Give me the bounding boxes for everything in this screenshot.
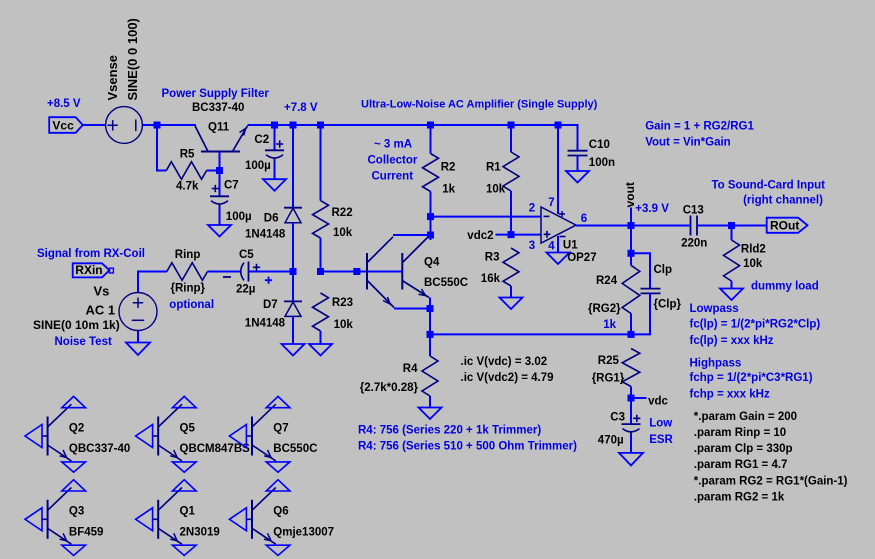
junction vout node: [628, 222, 635, 229]
svg-text:Current: Current: [372, 171, 414, 183]
junction feedback node right: [628, 331, 635, 338]
svg-text:.param RG2 = 1k: .param RG2 = 1k: [694, 491, 785, 503]
svg-text:1N4148: 1N4148: [245, 228, 286, 240]
svg-text:~ 3 mA: ~ 3 mA: [374, 139, 412, 151]
junction rail R22: [317, 122, 324, 129]
svg-text:OP27: OP27: [567, 252, 596, 264]
svg-text:{RG2}: {RG2}: [588, 303, 621, 315]
wire Vs up and right to Rinp: [138, 272, 167, 293]
wire C13 to ROut: [698, 225, 767, 227]
svg-text:C2: C2: [254, 134, 269, 146]
wire pin2 inverting input: [431, 216, 542, 218]
svg-text:{Rinp}: {Rinp}: [171, 283, 206, 295]
svg-text:R24: R24: [596, 275, 618, 287]
svg-text:C7: C7: [224, 179, 239, 191]
svg-text:dummy load: dummy load: [751, 280, 819, 292]
svg-text:Power Supply Filter: Power Supply Filter: [162, 88, 270, 100]
resistor R5: [166, 162, 206, 180]
svg-text:10k: 10k: [334, 319, 354, 331]
wire vout label stub: [630, 208, 632, 226]
svg-text:3: 3: [529, 240, 535, 252]
svg-text:6: 6: [581, 213, 587, 225]
svg-text:10k: 10k: [333, 227, 353, 239]
ground C3: [619, 453, 643, 466]
wire C3 to ground: [630, 435, 632, 453]
svg-text:RXin: RXin: [75, 263, 102, 277]
svg-text:Collector: Collector: [368, 155, 418, 167]
wire input node to D7: [292, 272, 294, 302]
flag emitter Q1: [172, 545, 196, 555]
wire rail to C2: [274, 125, 276, 150]
svg-text:4: 4: [548, 241, 555, 253]
svg-text:Q2: Q2: [69, 422, 84, 434]
svg-text:SINE(0 10m 1k): SINE(0 10m 1k): [33, 318, 120, 332]
ground R3: [500, 298, 523, 310]
wire collector node vertical: [430, 217, 432, 240]
transistor Q5 (spare): [153, 404, 182, 461]
wire R1 to vdc2 node: [510, 191, 512, 235]
svg-text:Q4: Q4: [424, 257, 440, 269]
port flag RXin: [73, 263, 114, 277]
flag base Q7: [229, 425, 246, 448]
svg-text:22µ: 22µ: [236, 283, 255, 295]
flag collector Q6: [266, 480, 290, 491]
capacitor Clp: [641, 289, 661, 294]
wire rail to R1: [510, 125, 512, 152]
svg-text:U1: U1: [563, 239, 578, 251]
junction emitter node: [427, 305, 434, 312]
wire vout down to R24: [630, 226, 632, 266]
ground Rld2: [720, 289, 743, 301]
wire vdc2 to pin3: [496, 234, 542, 236]
svg-text:QBCM847BS: QBCM847BS: [180, 443, 251, 455]
svg-text:Vsense: Vsense: [105, 55, 120, 101]
svg-text:{2.7k*0.28}: {2.7k*0.28}: [360, 382, 419, 394]
capacitor C13: [691, 216, 698, 236]
flag base Q5: [136, 425, 153, 448]
flag collector Q5: [172, 396, 196, 407]
wire vdc to C3: [630, 398, 632, 424]
wire R24 to feedback node: [630, 314, 632, 335]
wire Q4 left emitter: [394, 308, 430, 310]
junction rail R2: [427, 122, 434, 129]
svg-text:R23: R23: [332, 297, 353, 309]
svg-text:R4: 756 (Series 220 + 1k Trimm: R4: 756 (Series 220 + 1k Trimmer): [358, 424, 541, 436]
svg-text:{Clp}: {Clp}: [654, 298, 682, 310]
port flag ROut: [767, 218, 808, 233]
svg-text:Q11: Q11: [208, 121, 230, 133]
op-amp U1: [541, 207, 576, 243]
junction collector node: [427, 232, 434, 239]
svg-text:1k: 1k: [603, 319, 616, 331]
svg-text:+8.5 V: +8.5 V: [47, 98, 81, 110]
svg-text:(right channel): (right channel): [743, 194, 823, 206]
wire pin4 V- to ground: [557, 236, 559, 253]
svg-text:To Sound-Card Input: To Sound-Card Input: [712, 179, 826, 191]
junction node A: [154, 122, 161, 129]
svg-text:Q7: Q7: [273, 422, 288, 434]
svg-text:SINE(0 0 100): SINE(0 0 100): [125, 18, 140, 100]
resistor R25: [622, 349, 640, 387]
transistor Q7 (spare): [246, 404, 275, 461]
junction rail R1: [508, 122, 515, 129]
flag emitter Q7: [266, 462, 290, 472]
ground Vs: [126, 343, 150, 356]
wire Vsense to node A: [142, 124, 196, 126]
resistor R1: [503, 152, 519, 191]
flag base Q2: [25, 425, 42, 448]
junction rail pin7: [555, 122, 562, 129]
junction Rld2 node: [728, 222, 735, 229]
svg-text:fchp = xxx kHz: fchp = xxx kHz: [690, 389, 770, 401]
ground C10: [566, 171, 589, 183]
svg-text:ROut: ROut: [770, 218, 799, 232]
wire R25 to vdc node: [630, 387, 632, 399]
wire rail to D6: [292, 125, 294, 208]
transistor Q4 right: [402, 237, 429, 298]
junction rail C2: [271, 122, 278, 129]
resistor R4: [422, 356, 438, 396]
voltage source Vs: [119, 293, 157, 331]
svg-text:optional: optional: [169, 299, 214, 311]
capacitor C7: [210, 185, 229, 207]
svg-text:+3.9 V: +3.9 V: [635, 203, 669, 215]
ground D7: [282, 344, 305, 356]
wire Vcc to Vsense: [83, 124, 106, 126]
wire C10 to ground: [577, 156, 579, 172]
transistor Q1 (spare): [153, 488, 182, 545]
wire Rinp to C5: [208, 271, 241, 273]
wire rail to R22: [320, 125, 322, 201]
svg-text:R5: R5: [180, 149, 195, 161]
svg-text:Gain = 1 + RG2/RG1: Gain = 1 + RG2/RG1: [645, 121, 754, 133]
svg-text:.param RG1 = 4.7: .param RG1 = 4.7: [694, 459, 788, 471]
svg-text:Q3: Q3: [69, 506, 84, 518]
svg-text:Qmje13007: Qmje13007: [273, 527, 334, 539]
junction input node D7: [290, 268, 297, 275]
junction Clp top: [628, 250, 635, 257]
flag emitter Q3: [62, 545, 86, 555]
wire pin6 output: [576, 225, 690, 227]
junction input node R23: [317, 268, 324, 275]
wire Rld2 to ground: [731, 281, 733, 289]
transistor Q4 left: [367, 237, 394, 308]
svg-text:C3: C3: [610, 411, 625, 423]
wire base node to C7: [219, 171, 221, 197]
wire Clp bottom branch: [631, 293, 650, 334]
svg-text:vdc: vdc: [648, 396, 668, 408]
svg-text:vdc2: vdc2: [467, 230, 493, 242]
svg-text:QBC337-40: QBC337-40: [69, 443, 130, 455]
svg-text:R2: R2: [441, 161, 456, 173]
svg-text:C5: C5: [239, 249, 254, 261]
voltage source Vsense: [106, 107, 143, 144]
svg-text:Ultra-Low-Noise AC Amplifier (: Ultra-Low-Noise AC Amplifier (Single Sup…: [361, 98, 598, 110]
capacitor C5: [223, 262, 260, 282]
junction rail D6: [290, 122, 297, 129]
flag collector Q7: [266, 396, 290, 407]
svg-text:Vout = Vin*Gain: Vout = Vin*Gain: [645, 137, 731, 149]
wire Q4 emitter vertical: [429, 298, 431, 335]
wire C2 to ground: [274, 161, 276, 179]
svg-text:BC550C: BC550C: [273, 443, 317, 455]
svg-text:R22: R22: [332, 207, 353, 219]
svg-text:2N3019: 2N3019: [180, 527, 220, 539]
capacitor C3: [622, 415, 641, 435]
ground R4: [419, 408, 442, 420]
junction Q4 base: [353, 268, 360, 275]
svg-text:fchp = 1/(2*pi*C3*RG1): fchp = 1/(2*pi*C3*RG1): [690, 372, 813, 384]
svg-text:Low: Low: [649, 418, 672, 430]
svg-text:Q5: Q5: [180, 422, 196, 434]
flag collector Q3: [62, 480, 86, 491]
wire R22 to input node: [320, 238, 322, 272]
svg-text:470µ: 470µ: [598, 435, 624, 447]
svg-text:Vcc: Vcc: [52, 119, 74, 133]
svg-text:D6: D6: [264, 212, 279, 224]
svg-text:{RG1}: {RG1}: [592, 373, 625, 385]
ground R23: [309, 344, 332, 356]
flag base Q1: [136, 508, 153, 531]
flag collector Q1: [172, 480, 196, 491]
resistor Rinp: [167, 263, 208, 281]
resistor R2: [423, 154, 439, 192]
svg-text:Q6: Q6: [273, 506, 288, 518]
flag base Q6: [229, 508, 246, 531]
transistor Q6 (spare): [246, 488, 275, 545]
svg-text:Clp: Clp: [654, 264, 673, 276]
svg-text:16k: 16k: [481, 273, 501, 285]
wire Q11 base lead: [219, 152, 221, 171]
svg-text:4.7k: 4.7k: [176, 181, 199, 193]
svg-text:Noise Test: Noise Test: [55, 336, 112, 348]
svg-text:1k: 1k: [442, 183, 455, 195]
wire node A down to R5: [157, 125, 166, 171]
junction R2 bottom: [427, 213, 434, 220]
wire input node to Q4 bases: [321, 271, 402, 273]
svg-text:10k: 10k: [743, 258, 763, 270]
wire R4 to ground: [429, 396, 431, 408]
svg-text:R3: R3: [485, 252, 500, 264]
svg-text:100n: 100n: [589, 157, 615, 169]
svg-text:Highpass: Highpass: [690, 357, 742, 369]
svg-text:+7.8 V: +7.8 V: [284, 102, 318, 114]
ground C7: [208, 225, 231, 237]
flag base Q3: [25, 508, 42, 531]
wire R2 to pin2 node: [430, 192, 432, 217]
diode D6: [284, 208, 302, 223]
svg-text:.param Rinp = 10: .param Rinp = 10: [694, 427, 786, 439]
svg-text:BC337-40: BC337-40: [192, 102, 244, 114]
resistor R22: [313, 201, 329, 238]
svg-text:fc(lp) = 1/(2*pi*RG2*Clp): fc(lp) = 1/(2*pi*RG2*Clp): [690, 319, 821, 331]
svg-text:Rld2: Rld2: [741, 243, 766, 255]
capacitor C2: [265, 140, 284, 161]
svg-text:2: 2: [529, 202, 535, 214]
flag emitter Q2: [62, 462, 86, 472]
svg-text:10k: 10k: [486, 183, 506, 195]
junction vdc node: [628, 395, 635, 402]
port flag Vcc: [49, 117, 83, 133]
wire R5 to base node: [207, 170, 220, 172]
junction Q11 base node: [216, 167, 223, 174]
svg-text:Signal from RX-Coil: Signal from RX-Coil: [37, 248, 145, 260]
svg-text:R25: R25: [598, 355, 620, 367]
resistor Rld2: [724, 240, 740, 281]
polarity mark + near C5 (blue): [265, 277, 272, 284]
flag collector Q2: [62, 396, 86, 407]
svg-text:Vs: Vs: [94, 283, 110, 298]
flag emitter Q6: [266, 545, 290, 555]
svg-text:100µ: 100µ: [245, 160, 271, 172]
svg-text:220n: 220n: [681, 237, 707, 249]
resistor R23: [313, 293, 329, 331]
transistor Q2 (spare): [42, 404, 71, 461]
svg-text:7: 7: [548, 197, 554, 209]
svg-text:C10: C10: [589, 139, 610, 151]
svg-text:.ic V(vdc) = 3.02: .ic V(vdc) = 3.02: [461, 356, 548, 368]
resistor R3: [503, 248, 519, 286]
diode D7: [284, 301, 302, 316]
junction vdc2 node: [508, 231, 515, 238]
ground U1: [547, 253, 570, 265]
svg-text:Lowpass: Lowpass: [690, 303, 739, 315]
svg-text:fc(lp) = xxx kHz: fc(lp) = xxx kHz: [690, 335, 774, 347]
transistor Q3 (spare): [42, 488, 71, 545]
wire D6 to input node: [292, 223, 294, 272]
svg-text:.param Clp = 330p: .param Clp = 330p: [694, 443, 793, 455]
capacitor C10: [568, 151, 588, 156]
svg-text:D7: D7: [263, 299, 278, 311]
wire Q4 collectors: [393, 234, 431, 236]
svg-text:ESR: ESR: [649, 434, 673, 446]
wire feedback emitter to RG network: [430, 333, 631, 335]
svg-text:*.param Gain = 200: *.param Gain = 200: [694, 411, 797, 423]
wire emitter node to R4: [429, 334, 431, 356]
wire Q11 emitter to +7.8V rail: [248, 125, 578, 151]
svg-text:AC 1: AC 1: [86, 303, 116, 318]
wire Clp top branch: [631, 253, 650, 288]
svg-text:.ic V(vdc2) = 4.79: .ic V(vdc2) = 4.79: [461, 372, 554, 384]
ground C2: [263, 179, 286, 191]
svg-text:Rinp: Rinp: [175, 249, 201, 261]
svg-text:BF459: BF459: [69, 527, 104, 539]
wire pin7 V+ from rail: [557, 125, 559, 214]
svg-text:1N4148: 1N4148: [245, 317, 286, 329]
wire R3 to ground: [510, 286, 512, 298]
svg-text:R4: 756 (Series 510 + 500 Ohm: R4: 756 (Series 510 + 500 Ohm Trimmer): [358, 441, 577, 453]
resistor R24: [622, 265, 640, 313]
svg-text:R1: R1: [486, 161, 501, 173]
wire R23 to ground: [320, 331, 322, 344]
svg-text:R4: R4: [403, 363, 418, 375]
transistor Q11: [195, 126, 248, 152]
wire vdc stub: [631, 397, 647, 399]
wire D7 to ground: [292, 316, 294, 344]
svg-text:100µ: 100µ: [226, 211, 252, 223]
junction feedback node left: [427, 331, 434, 338]
svg-text:Q1: Q1: [180, 506, 196, 518]
wire rail to R2: [430, 125, 432, 154]
wire C7 to ground: [219, 207, 221, 225]
svg-text:C13: C13: [683, 205, 704, 217]
wire Vs to ground: [137, 331, 139, 343]
svg-text:*.param RG2 = RG1*(Gain-1): *.param RG2 = RG1*(Gain-1): [694, 475, 848, 487]
wire node to Rld2: [731, 226, 733, 241]
svg-text:BC550C: BC550C: [424, 277, 468, 289]
wire C5 to input node: [249, 271, 294, 273]
flag emitter Q5: [172, 462, 196, 472]
